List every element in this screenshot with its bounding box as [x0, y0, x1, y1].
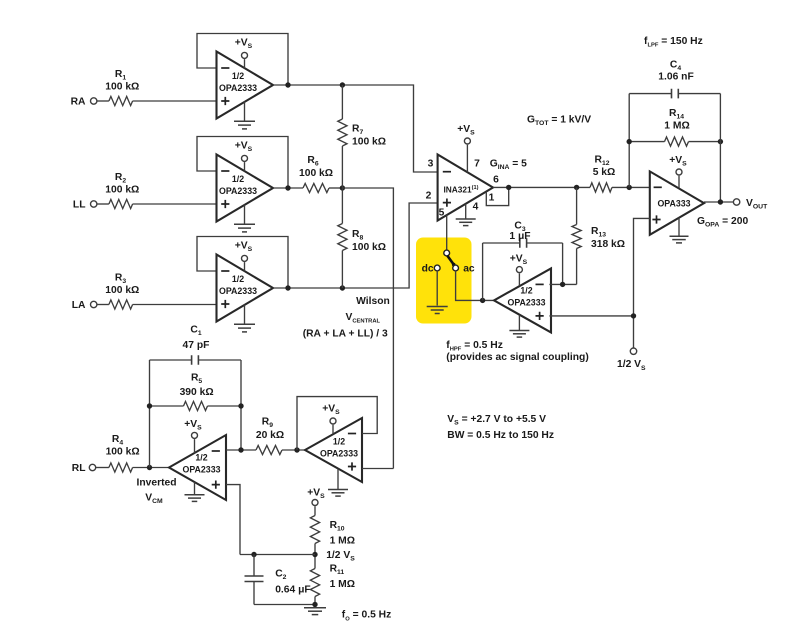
- op-amp INA321 instrumentation amplifier U2: [438, 155, 493, 221]
- ground RA buffer: [234, 101, 255, 128]
- +VS supply LL buffer: [235, 141, 253, 172]
- ground divider: [304, 608, 326, 615]
- svg-text:0.64 μF: 0.64 μF: [275, 585, 311, 596]
- pin 6 label: [493, 175, 499, 186]
- junction OPA333 feedback node: [627, 185, 632, 190]
- wire OPA333 output to VOUT: [704, 201, 733, 203]
- pin 4 label: [473, 202, 479, 213]
- junction R14 right: [718, 139, 723, 144]
- wire RL terminal to R4: [96, 467, 109, 469]
- pin 5 label: [439, 208, 445, 219]
- wire LL terminal to R2: [97, 203, 109, 205]
- wire R10 to R11: [314, 544, 316, 569]
- ground integrator: [509, 315, 529, 337]
- svg-text:20 kΩ: 20 kΩ: [256, 430, 284, 441]
- wire RA buffer output to INA321 pin 3: [273, 85, 438, 172]
- wire R3 to op-amp + input: [133, 304, 217, 306]
- ground Wilson buffer: [328, 469, 348, 496]
- svg-text:RL: RL: [72, 463, 86, 474]
- svg-text:fO = 0.5 Hz: fO = 0.5 Hz: [342, 610, 391, 623]
- junction R5 right: [238, 403, 243, 408]
- svg-text:100 kΩ: 100 kΩ: [105, 185, 139, 196]
- label f HPF: [446, 340, 503, 353]
- svg-text:Inverted: Inverted: [136, 478, 176, 489]
- ground pin 4 INA321: [456, 204, 476, 226]
- resistor R8 100 k: [338, 224, 386, 254]
- capacitor C2 0.64 uF: [245, 555, 311, 605]
- svg-text:100 kΩ: 100 kΩ: [105, 285, 139, 296]
- svg-text:OPA2333: OPA2333: [219, 186, 257, 196]
- svg-text:OPA2333: OPA2333: [320, 449, 358, 459]
- svg-text:LA: LA: [72, 300, 86, 311]
- svg-text:100 kΩ: 100 kΩ: [106, 447, 140, 458]
- wire Wilson buffer + input to central line: [362, 468, 393, 470]
- svg-text:1/2: 1/2: [232, 274, 244, 284]
- wire C3 right to - input: [562, 243, 564, 284]
- junction LL output feedback: [285, 185, 290, 190]
- feedback wire U2 output to - input: [197, 137, 288, 189]
- junction C3 - node: [560, 282, 565, 287]
- ground OPA333: [670, 218, 689, 243]
- wire R11 to ground: [314, 597, 316, 608]
- node RL terminal: [72, 463, 96, 474]
- svg-text:2: 2: [426, 191, 432, 202]
- label f LPF: [644, 36, 703, 49]
- resistor R14 1 M feedback: [629, 108, 720, 146]
- wire dc terminal to ground: [436, 271, 438, 306]
- pin 1 label: [489, 193, 495, 204]
- svg-text:VS = +2.7 V to +5.5 V: VS = +2.7 V to +5.5 V: [447, 414, 546, 427]
- wire LL buffer output to R6: [273, 187, 303, 189]
- wire R6 to central node: [329, 187, 342, 189]
- svg-text:1/2: 1/2: [232, 174, 244, 184]
- wire R9 to Wilson buffer output: [282, 449, 305, 451]
- wire feedback left vertical: [628, 94, 630, 188]
- ground LL buffer: [234, 204, 255, 232]
- svg-text:100 kΩ: 100 kΩ: [299, 168, 333, 179]
- node RA input terminal: [71, 97, 97, 108]
- svg-text:LL: LL: [73, 200, 86, 211]
- +VS supply RL driver: [184, 419, 202, 453]
- svg-text:7: 7: [474, 159, 480, 170]
- op-amp 1/2 OPA2333 RA buffer: [217, 52, 274, 119]
- op-amp 1/2 OPA2333 inverting RL driver U5: [169, 435, 226, 500]
- wire C3 left to integrator output: [482, 243, 484, 300]
- svg-text:(provides ac signal coupling): (provides ac signal coupling): [446, 352, 588, 363]
- svg-text:OPA2333: OPA2333: [183, 465, 221, 475]
- svg-text:1: 1: [489, 193, 495, 204]
- wire integrator + input to half-VS rail: [549, 315, 633, 317]
- label G OPA gain: [697, 216, 748, 229]
- wire half-VS rail: [240, 554, 315, 556]
- wire RL driver + input to half-VS rail: [226, 485, 240, 555]
- label G TOT gain: [527, 115, 591, 128]
- wire R2 to op-amp + input: [133, 203, 217, 205]
- resistor R3 100 k: [105, 273, 139, 310]
- svg-text:100 kΩ: 100 kΩ: [352, 137, 386, 148]
- wire feedback right vertical (input side): [240, 360, 242, 450]
- resistor R10 1 M: [310, 516, 355, 547]
- junction R13 tap: [574, 185, 579, 190]
- svg-text:100 kΩ: 100 kΩ: [352, 242, 386, 253]
- junction RA output R7: [340, 82, 345, 87]
- switch common terminal: [444, 250, 450, 256]
- capacitor C1 47 pF: [150, 325, 242, 365]
- wire feedback right vertical: [719, 94, 721, 202]
- junction output feedback: [718, 199, 723, 204]
- svg-text:(RA + LA + LL) / 3: (RA + LA + LL) / 3: [303, 329, 388, 340]
- op-amp 1/2 OPA2333 LA buffer: [217, 255, 274, 322]
- svg-text:1.06 nF: 1.06 nF: [658, 72, 693, 83]
- wire LA buffer output to INA321 pin 2: [273, 203, 438, 288]
- wire RA terminal to R1: [97, 100, 109, 102]
- svg-text:5: 5: [439, 208, 445, 219]
- +VS supply INA321: [457, 124, 475, 172]
- wire R8 to LA output: [341, 251, 343, 289]
- wire R7 to central node: [341, 146, 343, 188]
- svg-text:1 MΩ: 1 MΩ: [330, 579, 355, 590]
- label f0 corner frequency: [342, 610, 391, 623]
- node LA input terminal: [72, 300, 97, 311]
- +VS supply LA buffer: [235, 241, 253, 272]
- svg-text:1/2: 1/2: [520, 286, 532, 296]
- op-amp 1/2 OPA2333 Wilson buffer U6: [305, 418, 362, 482]
- feedback wire U1 output to - input: [197, 34, 288, 86]
- switch dc terminal: [422, 264, 441, 275]
- svg-text:1/2: 1/2: [195, 453, 207, 463]
- junction divider ground: [312, 602, 317, 607]
- node Wilson central terminal: [340, 185, 345, 190]
- junction R14 left: [627, 139, 632, 144]
- resistor R6 100 k: [299, 155, 333, 193]
- label Wilson central terminal: [303, 296, 390, 340]
- junction Wilson buffer output: [294, 447, 299, 452]
- pin 7 label: [474, 159, 480, 170]
- +VS supply divider: [307, 488, 325, 516]
- capacitor C3 1 uF: [483, 221, 563, 248]
- svg-text:4: 4: [473, 202, 479, 213]
- svg-text:Wilson: Wilson: [356, 296, 390, 307]
- wire R1 to op-amp + input: [133, 100, 217, 102]
- +VS supply RA buffer: [235, 38, 253, 69]
- op-amp 1/2 OPA2333 LL buffer: [217, 155, 274, 222]
- svg-text:1 μF: 1 μF: [509, 231, 530, 242]
- junction R5 left: [147, 403, 152, 408]
- svg-text:ac: ac: [463, 264, 475, 275]
- op-amp 1/2 OPA2333 integrator U3: [494, 268, 551, 332]
- wire RA output down to R7: [341, 85, 343, 119]
- junction inverter output node: [147, 465, 152, 470]
- junction RA output feedback: [285, 82, 290, 87]
- +VS supply integrator: [510, 254, 528, 286]
- resistor R1 100 k: [105, 69, 139, 106]
- node LL input terminal: [73, 200, 97, 211]
- svg-text:5 kΩ: 5 kΩ: [593, 167, 616, 178]
- wire INA321 output to R12: [493, 186, 590, 188]
- ground RL driver: [185, 482, 205, 501]
- svg-text:OPA333: OPA333: [657, 198, 690, 208]
- svg-text:318 kΩ: 318 kΩ: [591, 239, 625, 250]
- resistor R9 20 k: [256, 416, 284, 454]
- svg-text:1 MΩ: 1 MΩ: [330, 536, 355, 547]
- +VS supply Wilson buffer: [322, 404, 340, 435]
- node VOUT terminal: [733, 198, 768, 211]
- junction LA output R8: [340, 285, 345, 290]
- wire OPA333 + input to half-VS line: [634, 218, 650, 348]
- junction feedback - node: [238, 447, 243, 452]
- resistor R4 100 k: [106, 434, 140, 472]
- switch blade (set to ac): [447, 256, 455, 267]
- label provides ac coupling: [446, 352, 588, 363]
- resistor R12 5 k: [590, 155, 615, 193]
- svg-text:dc: dc: [422, 264, 434, 275]
- feedback wire U3 output to - input: [197, 237, 288, 289]
- wire inverter - input to R9: [226, 449, 256, 451]
- svg-text:390 kΩ: 390 kΩ: [180, 387, 214, 398]
- feedback wire Wilson buffer output to - input: [297, 397, 377, 450]
- svg-text:1/2: 1/2: [232, 71, 244, 81]
- svg-text:OPA2333: OPA2333: [508, 298, 546, 308]
- svg-text:GOPA = 200: GOPA = 200: [697, 216, 748, 229]
- svg-text:OPA2333: OPA2333: [219, 83, 257, 93]
- svg-text:6: 6: [493, 175, 499, 186]
- node half VS divider: [312, 550, 355, 563]
- wire pin 1 feedback to pin 6 output: [486, 187, 508, 205]
- svg-text:100 kΩ: 100 kΩ: [105, 82, 139, 93]
- pin 2 label: [426, 191, 432, 202]
- resistor R2 100 k: [105, 172, 139, 209]
- resistor R7 100 k: [338, 119, 386, 148]
- highlight over dc/ac coupling switch: [416, 238, 472, 324]
- label G INA gain: [490, 159, 527, 172]
- junction C2 top: [251, 552, 256, 557]
- svg-text:3: 3: [428, 159, 434, 170]
- pin 3 label: [428, 159, 434, 170]
- label supply range: [447, 414, 546, 427]
- svg-text:47 pF: 47 pF: [183, 340, 210, 351]
- wire R12 to OPA333 - input: [612, 186, 650, 188]
- wire central node down to R8: [341, 188, 343, 224]
- wire LA terminal to R3: [97, 304, 109, 306]
- capacitor C4 1.06 nF feedback: [629, 60, 720, 99]
- op-amp OPA333 U4: [650, 171, 704, 234]
- wire pin 5 to switch common: [446, 215, 448, 251]
- label bandwidth: [447, 430, 554, 441]
- ground LA buffer: [234, 304, 255, 332]
- svg-text:RA: RA: [71, 97, 86, 108]
- ground dc position: [427, 307, 448, 314]
- svg-text:1 MΩ: 1 MΩ: [664, 121, 689, 132]
- svg-text:OPA2333: OPA2333: [219, 286, 257, 296]
- wire integrator - input: [549, 283, 576, 285]
- junction pin1 loop on output: [506, 185, 511, 190]
- wire ac terminal to integrator output: [456, 271, 494, 301]
- switch ac terminal: [453, 264, 475, 275]
- resistor R13 318 k: [572, 187, 625, 284]
- wire C2 bottom to ground rail: [254, 604, 315, 606]
- svg-text:BW = 0.5 Hz to 150 Hz: BW = 0.5 Hz to 150 Hz: [447, 430, 554, 441]
- +VS supply OPA333: [669, 155, 687, 188]
- wire central node to buffer + input (V CENTRAL): [342, 188, 393, 469]
- wire R4 to inverter output: [133, 467, 169, 469]
- wire feedback left vertical (output side): [149, 360, 151, 468]
- svg-text:1/2: 1/2: [333, 437, 345, 447]
- junction integrator + on half-VS line: [631, 313, 636, 318]
- junction C3 left leg: [480, 298, 485, 303]
- junction LA output feedback: [285, 285, 290, 290]
- label Inverted VCM: [136, 478, 176, 506]
- node half VS terminal: [617, 348, 646, 372]
- resistor R5 390 k: [150, 373, 242, 411]
- resistor R11 1 M: [310, 564, 355, 597]
